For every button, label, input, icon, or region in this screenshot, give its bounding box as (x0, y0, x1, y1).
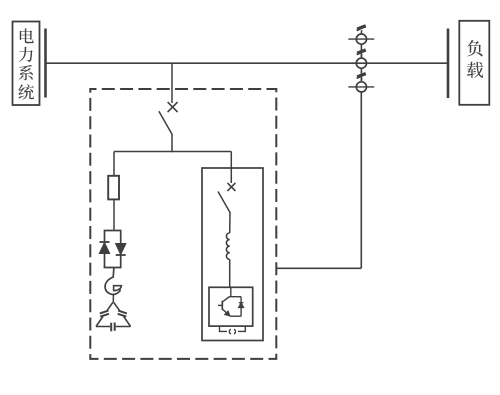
output wire vertical (360, 92, 362, 269)
sensor CT1 (348, 38, 374, 40)
wire below QF1 (171, 134, 173, 152)
arrester curl (105, 268, 120, 295)
gap triangle base capacitor (111, 323, 115, 332)
gap triangle left side (96, 302, 113, 326)
wire curl to gap triangle (112, 294, 114, 302)
converter box (202, 168, 263, 341)
gap triangle left ticks (100, 311, 109, 317)
valve frame top (104, 230, 122, 232)
valve right leg (120, 231, 122, 268)
wire reactor to IGBT module (229, 259, 231, 287)
load box (459, 21, 489, 105)
valve left leg (104, 231, 106, 268)
IGBT top rail (230, 296, 242, 298)
diode D1 up (100, 241, 110, 243)
wire fuse to valve (113, 200, 115, 231)
gap triangle base (96, 326, 131, 328)
switch blade QF1 (159, 111, 172, 134)
fuse FU (108, 176, 119, 200)
IGBT module box (209, 287, 253, 326)
power system box (13, 22, 40, 106)
label 力 (19, 47, 33, 62)
wire to fuse (113, 152, 115, 177)
label 载 (467, 62, 483, 78)
diode D2 down (116, 244, 126, 255)
wire tee to converter box (230, 152, 232, 169)
label 系 (19, 65, 33, 80)
IGBT emitter slant with arrow (223, 309, 231, 316)
IGBT freewheel diode (238, 303, 243, 308)
label 负 (467, 40, 483, 56)
dashed device boundary (90, 89, 276, 359)
gap triangle right ticks (118, 311, 127, 317)
curl flag (114, 286, 122, 291)
breaker cross QF1 (168, 102, 178, 112)
module lower bracket (220, 326, 246, 331)
main bus wire (47, 62, 449, 64)
switch blade QF2 (218, 192, 230, 214)
label 电 (20, 28, 34, 43)
wire into IGBT (230, 287, 232, 296)
tee wire (114, 151, 231, 153)
IGBT bottom rail (230, 315, 241, 317)
gap triangle right side (114, 302, 131, 326)
IGBT gate bar (221, 301, 223, 310)
bracket contact marks (229, 329, 235, 334)
link middle-bottom circles (360, 68, 362, 81)
source busbar (44, 29, 47, 98)
wire into switch QF2 (230, 168, 232, 183)
wire blade to reactor (229, 213, 231, 234)
IGBT right leg (240, 297, 242, 317)
reactor L (226, 233, 229, 259)
link top-middle circles (360, 44, 362, 58)
wire bus to breaker QF1 (171, 63, 173, 103)
IGBT collector slant (223, 297, 230, 302)
load busbar (447, 29, 450, 99)
switch cross QF2 (227, 183, 235, 191)
IGBT gate lead (218, 304, 222, 306)
output wire horizontal (277, 267, 361, 269)
label 统 (18, 84, 34, 99)
sensor CT3 (348, 86, 374, 88)
valve frame bottom (104, 267, 122, 269)
sensor CT2 (356, 58, 366, 68)
